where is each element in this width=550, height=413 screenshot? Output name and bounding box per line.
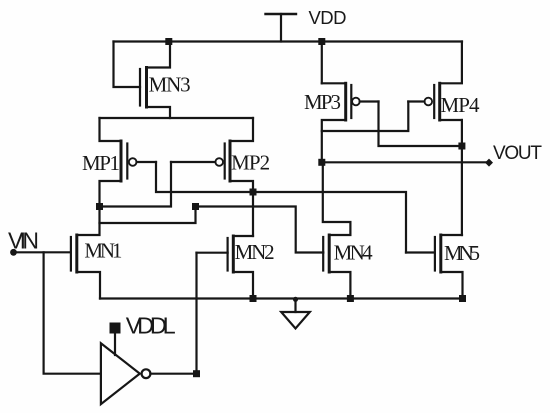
wire VDDL stub to inverter xyxy=(114,334,116,356)
wire node down to MN1 drain column xyxy=(100,207,196,224)
wire MP1 gate to MP2 drain (cross-couple) xyxy=(156,162,253,192)
power VDDL terminal square xyxy=(110,323,121,334)
wire inverter output up to MN2 gate xyxy=(195,253,197,374)
node VIN terminal dot xyxy=(10,249,17,256)
wire MP2 gate to MP1 drain (cross-couple) xyxy=(100,162,172,207)
node dot MN4 source on rail xyxy=(347,295,354,302)
wire VIN to MN1 gate xyxy=(14,251,71,253)
svg-text:MP3: MP3 xyxy=(304,90,341,114)
svg-text:MN1: MN1 xyxy=(84,238,122,262)
wire MP3 source column from rail xyxy=(321,42,323,84)
transistor MP4 xyxy=(408,42,480,121)
wire node to MN4 gate xyxy=(196,207,324,253)
svg-text:MN3: MN3 xyxy=(149,73,191,97)
transistor MN2 xyxy=(197,236,275,299)
wire MP4 gate to MP3 drain (cross-couple) xyxy=(322,102,409,132)
wire VIN branch to inverter input xyxy=(44,252,101,373)
inverter U1 xyxy=(101,343,151,404)
node dot MP3 source on rail xyxy=(318,38,325,45)
wire inverter output xyxy=(150,373,196,375)
wire MP3 gate to MP4 drain (cross-couple) xyxy=(379,102,462,147)
transistor MP3 xyxy=(304,83,379,162)
node dot VOUT tap on MP3 drain column xyxy=(318,159,325,166)
wire VOUT line xyxy=(322,161,490,163)
node dot MP4 drain xyxy=(458,143,465,150)
svg-text:MP4: MP4 xyxy=(441,93,481,117)
node dot MP2 drain xyxy=(250,189,257,196)
node dot inverter output xyxy=(193,370,200,377)
svg-text:MN4: MN4 xyxy=(334,241,374,265)
svg-text:MP2: MP2 xyxy=(231,151,270,175)
node dot MN3 drain on rail xyxy=(165,38,172,45)
wire ground rail xyxy=(100,297,463,299)
wire MP2 drain node to MN5 gate xyxy=(253,192,406,253)
svg-text:MN5: MN5 xyxy=(444,241,480,265)
svg-text:VIN: VIN xyxy=(8,228,39,254)
transistor MP2 xyxy=(171,118,270,192)
wire MP1/MP2 source rail xyxy=(100,117,254,119)
node VOUT terminal dot xyxy=(485,159,493,167)
svg-text:MN2: MN2 xyxy=(235,240,275,264)
svg-text:VOUT: VOUT xyxy=(493,143,542,164)
ground symbol xyxy=(281,297,310,329)
transistor MN4 xyxy=(323,162,373,298)
svg-text:MP1: MP1 xyxy=(82,151,120,175)
node dot second gate-bus node xyxy=(192,203,199,210)
svg-text:VDD: VDD xyxy=(309,7,347,28)
wire VDD top rail xyxy=(114,40,463,42)
node dot MN5 source on rail xyxy=(459,295,466,302)
transistor MN1 xyxy=(71,207,123,299)
wire MN3 gate feedback from rail xyxy=(114,42,141,88)
transistor MN5 xyxy=(406,235,480,299)
transistor MP1 xyxy=(82,118,156,207)
transistor MN3 xyxy=(140,42,191,119)
svg-text:VDDL: VDDL xyxy=(126,313,176,339)
power VDD symbol xyxy=(266,14,297,42)
wire MP2 drain column down to MN2 drain xyxy=(252,192,254,236)
node dot MP1 drain / MN1 drain xyxy=(96,203,103,210)
node dot MN2 source on rail xyxy=(250,295,257,302)
wire MP4 drain column down to MN5 drain xyxy=(461,120,463,235)
